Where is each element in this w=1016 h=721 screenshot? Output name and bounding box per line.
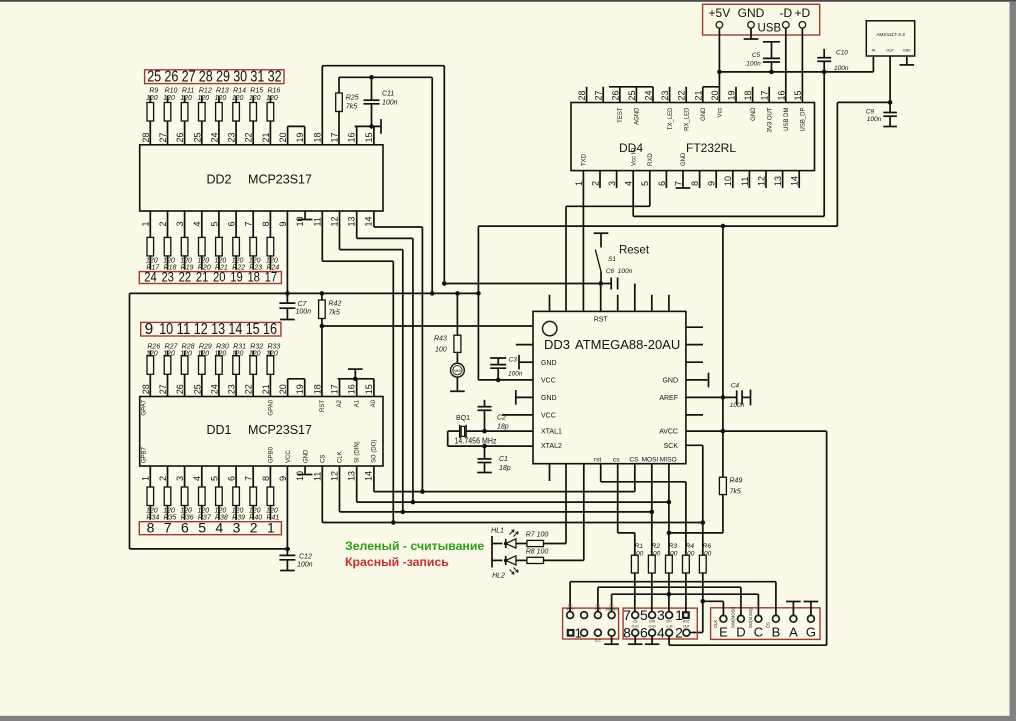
resistor R7 100 [527,540,544,546]
ground bar DD1 pin10 [298,474,313,476]
svg-text:C: C [754,625,763,640]
svg-text:GND: GND [303,449,309,463]
ground bar DD2 pin10 [298,219,313,221]
svg-text:-L.M: -L.M [666,625,673,629]
svg-text:19: 19 [230,270,243,285]
crystal BQ1 14.7456 MHz [466,430,533,432]
svg-text:1: 1 [141,221,151,226]
junction 3V3 rail [721,224,726,229]
svg-text:R9: R9 [149,88,158,95]
svg-text:DIR: DIR [649,619,655,623]
junction SCK/E [701,599,706,604]
DD3 right pin stub [686,361,703,363]
svg-text:23: 23 [227,384,237,394]
svg-text:RST: RST [594,317,609,324]
svg-text:9: 9 [278,221,288,226]
wire +5V [718,28,720,102]
DD4 pin 13 lead [782,171,784,188]
svg-text:R10: R10 [165,88,178,95]
IC DD4 FT232RL body [571,103,815,171]
DD3 bottom stub [549,464,551,481]
ground AMS [906,56,908,65]
svg-text:RST: RST [683,619,690,623]
svg-text:R1: R1 [635,543,644,550]
svg-text:24: 24 [209,384,219,394]
svg-text:C9: C9 [866,109,875,116]
resistor R24 120 [267,237,274,256]
resistor R38 120 [216,487,223,506]
svg-text:24: 24 [144,270,157,285]
resistor R17 120 [147,237,154,256]
DD2 pin 26 lead [184,121,186,145]
net RST [600,284,602,312]
net DD1 VCC rail bottom [130,548,291,550]
svg-text:120: 120 [180,257,192,264]
svg-text:5: 5 [640,181,650,186]
svg-text:23: 23 [660,90,670,100]
svg-text:TEST: TEST [618,107,624,123]
svg-text:27: 27 [182,69,196,86]
wire E net [722,601,724,615]
USB pad -D [783,22,790,29]
junction C11 top [369,75,374,80]
svg-text:GND: GND [738,6,765,20]
resistor R26 120 [147,356,154,375]
svg-text:25: 25 [627,90,637,100]
resistor R20 120 [199,237,206,256]
ground XP3 A [792,602,794,616]
svg-text:CLK: CLK [713,620,718,628]
DD2 pin 8 lead [269,211,271,237]
svg-text:23: 23 [227,132,237,142]
DD1 pin 21 lead [269,374,271,396]
svg-text:27: 27 [594,90,604,100]
capacitor C5 100n [763,41,780,43]
svg-text:C5: C5 [752,52,761,59]
DD2 pin 18 RESET wire up [321,66,323,145]
svg-text:IN: IN [872,49,876,53]
DD1 pin 24 lead [218,374,220,396]
net SPI bus SI [356,466,358,502]
svg-text:C2: C2 [497,415,506,422]
capacitor C7 100n [285,291,290,296]
DD1 pin 25 lead [201,374,203,396]
svg-text:120: 120 [232,507,244,514]
svg-text:CS: CS [321,455,327,463]
DD1 pin 17 lead [339,379,341,397]
svg-text:GPA7: GPA7 [142,399,148,415]
svg-text:7: 7 [244,476,254,481]
svg-text:120: 120 [215,257,227,264]
capacitor C12 100n [286,549,288,556]
wire MOSI to R2 [651,464,653,556]
svg-text:28: 28 [141,132,151,142]
svg-text:9: 9 [707,181,717,186]
resistor R11 120 [181,103,188,122]
wire D net [740,587,742,615]
DD4 pin 12 lead [765,171,767,188]
svg-text:OUT: OUT [683,625,690,629]
resistor R21 120 [216,237,223,256]
DD3 left stub VCC2 [502,414,533,416]
net RXD [649,171,651,207]
DD4 pin 11 lead [748,171,750,188]
XP2 bottom pad 4 [666,629,673,636]
wire R3 to XP2 pin3 [668,573,670,612]
svg-text:G: G [806,625,816,640]
DD2 pin 5 lead [218,211,220,237]
wire R4 to XP2 pin1 [685,573,687,612]
ground bar DD2 A-pins [380,119,382,134]
resistor R35 120 [164,487,171,506]
svg-text:GPB7: GPB7 [142,446,148,463]
XP1 top pad 2 [581,612,588,619]
XP2 top pad 7 [632,612,639,619]
svg-text:18: 18 [247,270,260,285]
svg-text:12: 12 [194,321,208,338]
svg-text:23: 23 [161,270,174,285]
svg-text:O+O: O+O [648,625,656,629]
svg-text:100n: 100n [297,562,313,569]
IC DD1 MCP23S17 body [140,397,383,467]
svg-text:21: 21 [261,384,271,394]
svg-text:O-C: O-C [595,639,602,643]
svg-text:100n: 100n [746,61,761,68]
ground bar DD1 A-pins [348,368,363,370]
svg-text:9: 9 [278,476,288,481]
DD1 pin 18 lead [321,326,323,397]
svg-text:21: 21 [261,132,271,142]
svg-text:HL2: HL2 [492,573,505,580]
DD2 pin 3 lead [184,211,186,237]
LED HL2 red [492,559,503,561]
wire R1 to XP2 pin7 [634,573,636,612]
svg-text:5: 5 [640,607,648,623]
svg-text:OUT: OUT [886,49,894,53]
ground USB [750,28,752,39]
wire C6 right to GND pin [634,284,636,312]
junction +5V rail [717,70,722,75]
svg-text:21: 21 [693,90,703,100]
DD1 pin 5 lead [218,466,220,487]
svg-text:C11: C11 [382,91,394,98]
svg-text:25: 25 [147,69,161,86]
XP1 top pad 1 [567,612,574,619]
svg-text:13: 13 [347,216,357,226]
svg-text:CLK: CLK [338,451,344,463]
svg-text:VCC: VCC [286,450,292,463]
wire rst to R4 [600,464,602,482]
wire CS to SO bus [634,464,636,492]
DD4 pin 18 lead [752,87,754,103]
resistor R30 120 [216,356,223,375]
svg-text:100n: 100n [730,402,745,409]
XP2 bottom pad 6 [649,629,656,636]
svg-text:16: 16 [347,384,357,394]
svg-text:18p: 18p [499,465,511,472]
wire USB +D [801,28,803,102]
ground stub DD1 [354,369,356,379]
resistor R16 120 [267,103,274,122]
DD2 pin 1 lead [149,211,151,237]
XP3 pad A [790,615,797,622]
svg-text:26: 26 [175,384,185,394]
DD3 top pin stub [668,295,670,312]
svg-text:10: 10 [723,176,733,186]
ground DD3 right GND [686,379,708,381]
svg-text:CS: CS [629,456,639,463]
XP2 pad square 1 [682,611,690,619]
svg-text:120: 120 [215,351,227,358]
net AVCC [686,430,827,432]
DD2 pin 6 lead [235,211,237,237]
svg-text:2: 2 [250,520,258,536]
DD1 pin 26 lead [184,374,186,396]
svg-text:6: 6 [227,476,237,481]
port box 9-16 [141,322,281,336]
svg-text:BQ1: BQ1 [456,415,470,422]
resistor R43 100 [456,293,458,335]
wire VCC to DD3 [478,379,533,381]
svg-text:100n: 100n [867,116,882,123]
resistor R29 120 [199,356,206,375]
wire DD2 reset top run [322,65,444,67]
svg-text:GND: GND [751,107,757,121]
svg-text:120: 120 [266,257,278,264]
svg-text:15: 15 [793,90,803,100]
svg-text:20: 20 [278,132,288,142]
svg-text:1: 1 [267,520,275,536]
svg-text:+D: +D [795,6,811,20]
XP3 pad E [720,615,727,622]
net SPI bus CLK [339,466,341,512]
svg-text:32: 32 [268,69,282,86]
XP3 pad C [755,615,762,622]
resistor R32 120 [250,356,257,375]
net VccIO [632,171,634,217]
XP1 top pad 4 [608,612,615,619]
DD2 pin 10 ground lead [304,211,306,220]
capacitor C3 100n [490,357,506,359]
XP1 bottom pad 3 [595,629,602,636]
DD3 pin1 mark [543,321,557,335]
svg-text:13: 13 [347,471,357,481]
net SCK [686,444,703,446]
resistor R19 120 [181,237,188,256]
svg-text:28: 28 [577,90,587,100]
junction R25 rail to VCC [430,291,435,296]
DD1 address ground tie [338,378,374,380]
net +5V rail [719,71,873,73]
svg-text:TXD: TXD [582,153,588,166]
svg-text:100n: 100n [508,371,523,378]
svg-text:USB: USB [757,23,781,35]
svg-text:100n: 100n [296,308,312,315]
svg-text:MCP23S17: MCP23S17 [248,423,312,437]
svg-text:RST: RST [320,400,326,412]
svg-text:21: 21 [196,270,209,285]
capacitor C11 100n [371,77,373,100]
DD1 pin 22 lead [252,374,254,396]
ground DD3 left GND1 [519,361,533,363]
DD1 pin 28 lead [149,374,151,396]
resistor R14 120 [233,103,240,122]
junction R42 to DD1 RST [320,324,325,329]
svg-text:МКЭ: МКЭ [454,369,462,373]
ground XP1 [611,636,613,644]
resistor R13 120 [216,103,223,122]
svg-text:XTAL1: XTAL1 [541,429,562,436]
connector XP2 box [623,608,697,639]
svg-text:18: 18 [743,90,753,100]
DD1 pin 2 lead [167,466,169,487]
svg-text:19: 19 [727,90,737,100]
svg-text:120: 120 [249,257,261,264]
junction RST bus left [442,281,447,286]
DD1 pin 20 lead [287,379,289,397]
svg-text:-D: -D [779,6,792,20]
DD2 pin 15 lead [373,126,375,144]
svg-text:25: 25 [192,132,202,142]
DD4 pin 27 lead [602,87,604,103]
svg-text:R4: R4 [686,543,695,550]
wire DD2 pin 14 to SPI bus [373,211,375,227]
svg-text:24: 24 [644,90,654,100]
net SPI bus SO [373,466,375,492]
resistor R37 120 [199,487,206,506]
junction SPI bus 14 [420,489,425,494]
svg-text:R30: R30 [216,343,229,350]
svg-text:120: 120 [197,257,209,264]
wire DD2 pin 13 to SPI bus [356,211,358,238]
svg-text:AMS1117-3.3: AMS1117-3.3 [876,32,905,38]
capacitor C2 18p [484,400,486,407]
svg-text:120: 120 [249,95,261,102]
svg-text:2: 2 [158,476,168,481]
wire VCC bus left drop [129,293,131,549]
resistor R15 120 [250,103,257,122]
XP1 bottom pad 4 [608,629,615,636]
DD2 pin 7 lead [252,211,254,237]
DD2 pin 28 lead [149,121,151,145]
DD1 pin 27 lead [167,374,169,396]
svg-text:FT232RL: FT232RL [686,141,736,155]
svg-text:8: 8 [147,520,155,536]
wire R8 to DD3 [583,464,585,561]
svg-text:GND: GND [903,49,911,53]
DD1 pin 3 lead [184,466,186,487]
svg-text:1: 1 [141,476,151,481]
DD4 pin 17 lead [768,87,770,103]
svg-text:120: 120 [232,351,244,358]
resistor R10 120 [164,103,171,122]
net 3V3 to MCU [837,101,890,103]
svg-text:8: 8 [623,625,631,641]
svg-text:16: 16 [347,132,357,142]
svg-text:R8 100: R8 100 [526,548,549,555]
svg-text:17: 17 [265,270,278,285]
svg-text:A1: A1 [354,399,360,407]
svg-text:R33: R33 [267,343,280,350]
svg-text:17: 17 [330,132,340,142]
svg-text:GPA0: GPA0 [269,399,275,415]
svg-text:11: 11 [740,177,750,186]
svg-text:RD: RD [609,604,614,608]
svg-text:120: 120 [146,351,158,358]
DD1 pin 16 lead [356,379,358,397]
DD4 pin 8 lead [699,171,701,188]
svg-text:14: 14 [790,176,800,186]
svg-text:12: 12 [329,471,339,481]
wire XP2 pin2 to SCK [689,632,691,634]
XP1 bottom pad 2 [581,629,588,636]
svg-text:8: 8 [261,476,271,481]
svg-text:6: 6 [657,181,667,186]
wire B net [775,582,777,616]
svg-text:MOSI: MOSI [642,456,659,463]
DD2 pin 23 lead [235,121,237,145]
svg-text:12: 12 [329,216,339,226]
svg-text:AREF: AREF [659,395,678,402]
svg-text:DO: DO [667,619,672,623]
XP2 top pad 3 [666,612,673,619]
svg-text:DD3: DD3 [544,337,570,352]
junction pin15/C11 [369,124,374,129]
svg-text:B: B [772,625,781,640]
DD1 pin 6 lead [235,466,237,487]
svg-text:DD1: DD1 [206,423,231,437]
svg-text:AGND: AGND [635,107,641,125]
DD4 pin 24 lead [652,87,654,103]
wire rail drop to VCC bus [431,77,433,293]
DD3 top pin stub [651,295,653,312]
junction 3V3 [888,100,893,105]
DD2 pin 27 lead [167,121,169,145]
svg-text:3: 3 [175,221,185,226]
resistor R6 100 [699,555,706,573]
svg-text:120: 120 [163,507,175,514]
IC DD2 MCP23S17 body [140,145,383,211]
DD3 right pin stub [686,414,703,416]
svg-text:120: 120 [197,95,209,102]
svg-text:R11: R11 [182,88,194,95]
svg-text:7k5: 7k5 [730,489,741,496]
svg-text:120: 120 [163,95,175,102]
svg-text:R3: R3 [669,543,678,550]
svg-text:4: 4 [624,181,634,186]
svg-text:O+O: O+O [632,625,640,629]
svg-text:8: 8 [261,221,271,226]
DD4 pin 10 lead [732,171,734,188]
connector XP3 box [711,608,820,640]
svg-text:100: 100 [435,347,447,354]
svg-text:R28: R28 [182,343,195,350]
XP1 pad square [567,629,575,637]
resistor R22 120 [233,237,240,256]
svg-text:XTAL2: XTAL2 [541,443,562,450]
svg-text:16: 16 [776,90,786,100]
svg-text:15: 15 [364,132,374,142]
svg-text:14: 14 [228,321,242,338]
DD1 pin 4 lead [201,466,203,487]
resistor R23 120 [250,237,257,256]
wire AMS in [872,56,874,72]
svg-text:Vcc: Vcc [718,108,724,118]
svg-text:25: 25 [192,384,202,394]
svg-text:26: 26 [610,90,620,100]
svg-text:GND: GND [681,152,687,166]
svg-text:R31: R31 [233,343,246,350]
